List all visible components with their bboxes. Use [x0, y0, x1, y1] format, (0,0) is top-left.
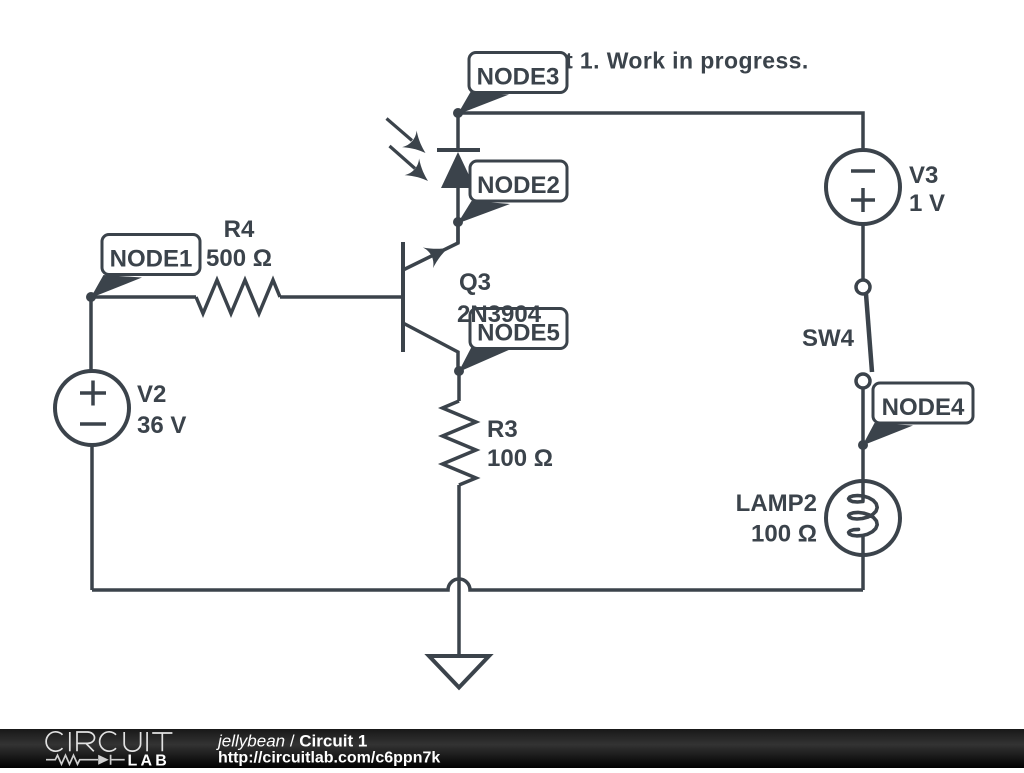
svg-text:V3: V3 [909, 162, 938, 189]
node dot NODE3 [453, 108, 463, 118]
wire R3 to ground [457, 485, 461, 656]
svg-text:NODE3: NODE3 [477, 64, 560, 91]
svg-text:36 V: 36 V [137, 412, 186, 439]
wire photodiode anode to NODE2 to transistor emitter [456, 186, 460, 243]
wire NODE3 down to photodiode cathode [456, 113, 460, 150]
resistor R4 zigzag [196, 280, 280, 314]
svg-text:NODE4: NODE4 [882, 394, 965, 421]
svg-text:SW4: SW4 [802, 325, 855, 352]
svg-text:R4: R4 [224, 216, 255, 243]
svg-text:Q3: Q3 [459, 269, 491, 296]
wire bottom rail with hop over ground wire [92, 579, 863, 590]
light arrow 1 [387, 119, 433, 162]
svg-text:NODE1: NODE1 [110, 246, 193, 273]
wire V3 to switch [861, 224, 865, 280]
lamp lead bottom [861, 535, 865, 556]
lamp LAMP2 circle [826, 481, 900, 555]
node label NODE1 [91, 235, 201, 299]
wire lamp to bottom rail [861, 555, 865, 590]
wire NODE5 to R3 [457, 371, 461, 401]
svg-text:NODE2: NODE2 [477, 172, 560, 199]
svg-text:500 Ω: 500 Ω [206, 245, 272, 272]
switch SW4 upper contact [856, 280, 870, 294]
switch SW4 blade [866, 294, 872, 372]
switch SW4 lower contact [856, 374, 870, 388]
wire switch to NODE4 to lamp [861, 388, 865, 481]
voltage source V2 circle [55, 371, 129, 445]
svg-text:100 Ω: 100 Ω [751, 521, 817, 548]
node label NODE2 [458, 161, 568, 224]
svg-text:jellybean / Circuit 1: jellybean / Circuit 1 [216, 732, 367, 751]
photodiode anode triangle [441, 152, 475, 188]
svg-text:R3: R3 [487, 416, 518, 443]
transistor Q3 emitter diagonal with arrow [403, 222, 458, 270]
svg-text:LAB: LAB [128, 753, 170, 769]
node label NODE3 [458, 53, 568, 115]
footer bar [0, 729, 1024, 768]
V2 minus sign [80, 422, 106, 426]
V2 plus sign [80, 381, 106, 406]
lamp lead top [861, 481, 865, 501]
wire V2 bottom to ground rail [90, 445, 94, 590]
node label NODE5 [459, 309, 568, 373]
logo doodle resistor-diode [46, 755, 125, 765]
light arrow 2 [390, 146, 436, 189]
svg-text:2N3904: 2N3904 [457, 301, 542, 328]
lamp LAMP2 filament coil [849, 496, 878, 536]
svg-text:http://circuitlab.com/c6ppn7k: http://circuitlab.com/c6ppn7k [218, 750, 440, 767]
svg-text:V2: V2 [137, 381, 166, 408]
photodiode cathode bar [437, 148, 480, 152]
svg-text:1 V: 1 V [909, 190, 945, 217]
V3 minus sign [851, 169, 875, 173]
wire left column V2 top [89, 297, 93, 371]
wire top from NODE3 to V3 corner [458, 113, 863, 150]
voltage source V3 circle [826, 150, 900, 224]
logo CIRCUIT [46, 732, 172, 752]
svg-text:LAMP2: LAMP2 [736, 490, 817, 517]
svg-text:100 Ω: 100 Ω [487, 445, 553, 472]
V3 plus sign [851, 188, 875, 212]
ground symbol [429, 656, 489, 688]
resistor R3 zigzag [443, 401, 477, 485]
wire R4 from NODE1 to resistor [91, 295, 196, 299]
transistor Q3 base bar [401, 242, 405, 352]
node dot NODE5 [454, 366, 464, 376]
transistor Q3 collector diagonal [403, 323, 458, 371]
node label NODE4 [863, 383, 974, 446]
node dot NODE1 [86, 292, 96, 302]
wire R4 to Q3 base [280, 295, 403, 299]
node dot NODE2 [453, 217, 463, 227]
node dot NODE4 [858, 440, 868, 450]
